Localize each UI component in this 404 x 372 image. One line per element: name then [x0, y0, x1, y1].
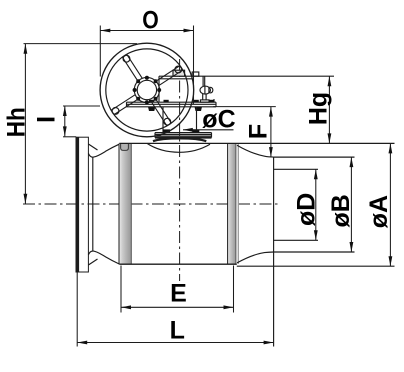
gearbox left edge: [158, 76, 160, 102]
dim O arrow right: [184, 29, 194, 33]
flange back bevel bottom: [88, 259, 97, 265]
dim oB arrow bottom: [350, 242, 354, 252]
dim Hh reference top line: [24, 43, 138, 45]
knob top stem right: [204, 76, 206, 86]
dim oD arrow bottom: [314, 230, 318, 240]
dim oB line: [350, 157, 352, 252]
rivet UR: [175, 66, 182, 73]
dim I reference top: [63, 105, 100, 107]
dim E extension right: [233, 266, 235, 313]
knob stem base flare: [200, 100, 209, 102]
hub line at flange: [92, 157, 94, 250]
svg-text:L: L: [170, 317, 185, 345]
bracket right side: [196, 107, 198, 133]
gearbox top edge + Hg reference line: [159, 75, 334, 77]
rivet LL: [112, 108, 119, 115]
dim O extension right: [193, 26, 195, 104]
dim oD line: [315, 169, 317, 240]
weld pipe oB bottom edge: [274, 251, 355, 253]
oC leader line: [183, 129, 234, 131]
flange nut 2: [164, 100, 169, 103]
dim I arrow bottom: [63, 126, 67, 136]
body barrel bottom edge: [119, 263, 237, 265]
bracket left side: [162, 107, 164, 133]
dim oA line: [389, 143, 391, 266]
knob segment line 1: [204, 86, 206, 93]
svg-text:I: I: [32, 116, 60, 123]
flange bolt left: [148, 107, 155, 111]
oA extension bottom: [237, 265, 395, 267]
spoke UL: [122, 54, 142, 81]
svg-text:Hh: Hh: [2, 107, 30, 137]
bore oD bottom edge: [274, 239, 318, 241]
dim oD arrow top: [314, 169, 318, 179]
dim F line: [270, 107, 272, 158]
dim I arrow top: [63, 106, 67, 116]
flange nut 1: [149, 100, 154, 103]
hub inner circle: [137, 80, 156, 99]
dim O extension left: [99, 26, 101, 77]
mounting flange plate2 bottom: [127, 106, 217, 108]
dim Hg arrow bottom: [328, 133, 332, 143]
dim O line: [100, 30, 193, 32]
mounting flange right side: [215, 102, 217, 107]
dim oB arrow top: [350, 157, 354, 167]
plate bolt left: [163, 129, 170, 132]
dim Hh line: [24, 44, 26, 204]
weld seam band left: [119, 144, 131, 265]
mounting flange left side: [126, 102, 128, 107]
dim Hg arrow top: [328, 76, 332, 86]
body end face + L right extension: [273, 157, 275, 346]
dim L line: [77, 342, 273, 344]
gearbox right edge lower: [213, 99, 215, 102]
svg-text:Hg: Hg: [304, 92, 332, 125]
knob top stem left: [202, 76, 204, 86]
adapter plate: [155, 133, 212, 138]
flange left: [76, 137, 88, 272]
neck top curve: [88, 144, 119, 157]
dim I line: [64, 106, 66, 136]
dim O arrow left: [100, 29, 110, 33]
weld pipe oB top edge: [274, 156, 355, 158]
weld seam band right: [228, 144, 239, 265]
bonnet dome arc: [153, 138, 206, 141]
right cone bottom: [237, 252, 274, 263]
grease knob body: [200, 86, 210, 94]
body barrel top edge: [119, 142, 394, 144]
centerline vertical stem axis: [179, 59, 181, 281]
dim F arrow top: [269, 107, 273, 117]
rivet UL: [123, 55, 130, 62]
dim Hg line: [328, 76, 330, 143]
knob segment line 2: [208, 87, 210, 94]
dim L arrow right: [264, 341, 274, 345]
hub outer circle: [134, 77, 159, 102]
flange nut 3: [194, 100, 199, 103]
spoke LL: [111, 95, 138, 115]
dome base fillet arc: [147, 143, 210, 152]
dim F arrow bottom: [269, 147, 273, 157]
handwheel outer rim: [100, 43, 194, 137]
dim F reference top: [213, 106, 276, 108]
mounting flange plate1 top: [127, 101, 217, 103]
dim I reference bottom: [63, 136, 76, 138]
plate bolt right: [192, 129, 199, 132]
flange bolt right: [195, 107, 203, 111]
svg-text:E: E: [170, 280, 187, 308]
spoke LR: [151, 99, 171, 126]
knob right cap: [210, 87, 213, 93]
svg-text:øB: øB: [327, 194, 355, 227]
dim oA arrow bottom: [389, 256, 393, 266]
svg-text:O: O: [142, 7, 159, 35]
dim E extension left: [120, 266, 122, 313]
dim oA arrow top: [389, 143, 393, 153]
knob stem left: [202, 94, 204, 102]
spoke UR: [156, 66, 183, 86]
bore oD top edge: [274, 168, 318, 170]
rivet LR: [164, 118, 171, 125]
oC leader arrow: [183, 128, 193, 132]
gearbox top inner line: [159, 78, 192, 80]
dim E line: [121, 306, 234, 308]
svg-text:øA: øA: [365, 195, 393, 228]
handwheel inner rim: [106, 49, 188, 131]
mounting flange plate mid: [127, 103, 217, 105]
hub bolt dots: [133, 76, 162, 105]
centerline horizontal: [23, 203, 280, 205]
svg-text:øD: øD: [293, 193, 321, 226]
neck bottom curve: [88, 251, 119, 264]
dim E arrow right: [224, 305, 234, 309]
right cone top: [237, 145, 274, 157]
svg-text:øC: øC: [202, 105, 235, 133]
svg-text:F: F: [245, 124, 273, 139]
gearbox indicator tab: [192, 72, 199, 76]
dim L extension left: [76, 272, 78, 346]
dim Hh arrow top: [24, 44, 28, 54]
flange nut 4: [209, 100, 214, 103]
knob stem right: [205, 94, 207, 102]
dim L arrow left: [77, 341, 87, 345]
gearbox cover boss: [173, 70, 185, 76]
dim Hh arrow bottom: [24, 194, 28, 204]
flange back bevel top: [88, 144, 97, 150]
dim E arrow left: [121, 305, 131, 309]
